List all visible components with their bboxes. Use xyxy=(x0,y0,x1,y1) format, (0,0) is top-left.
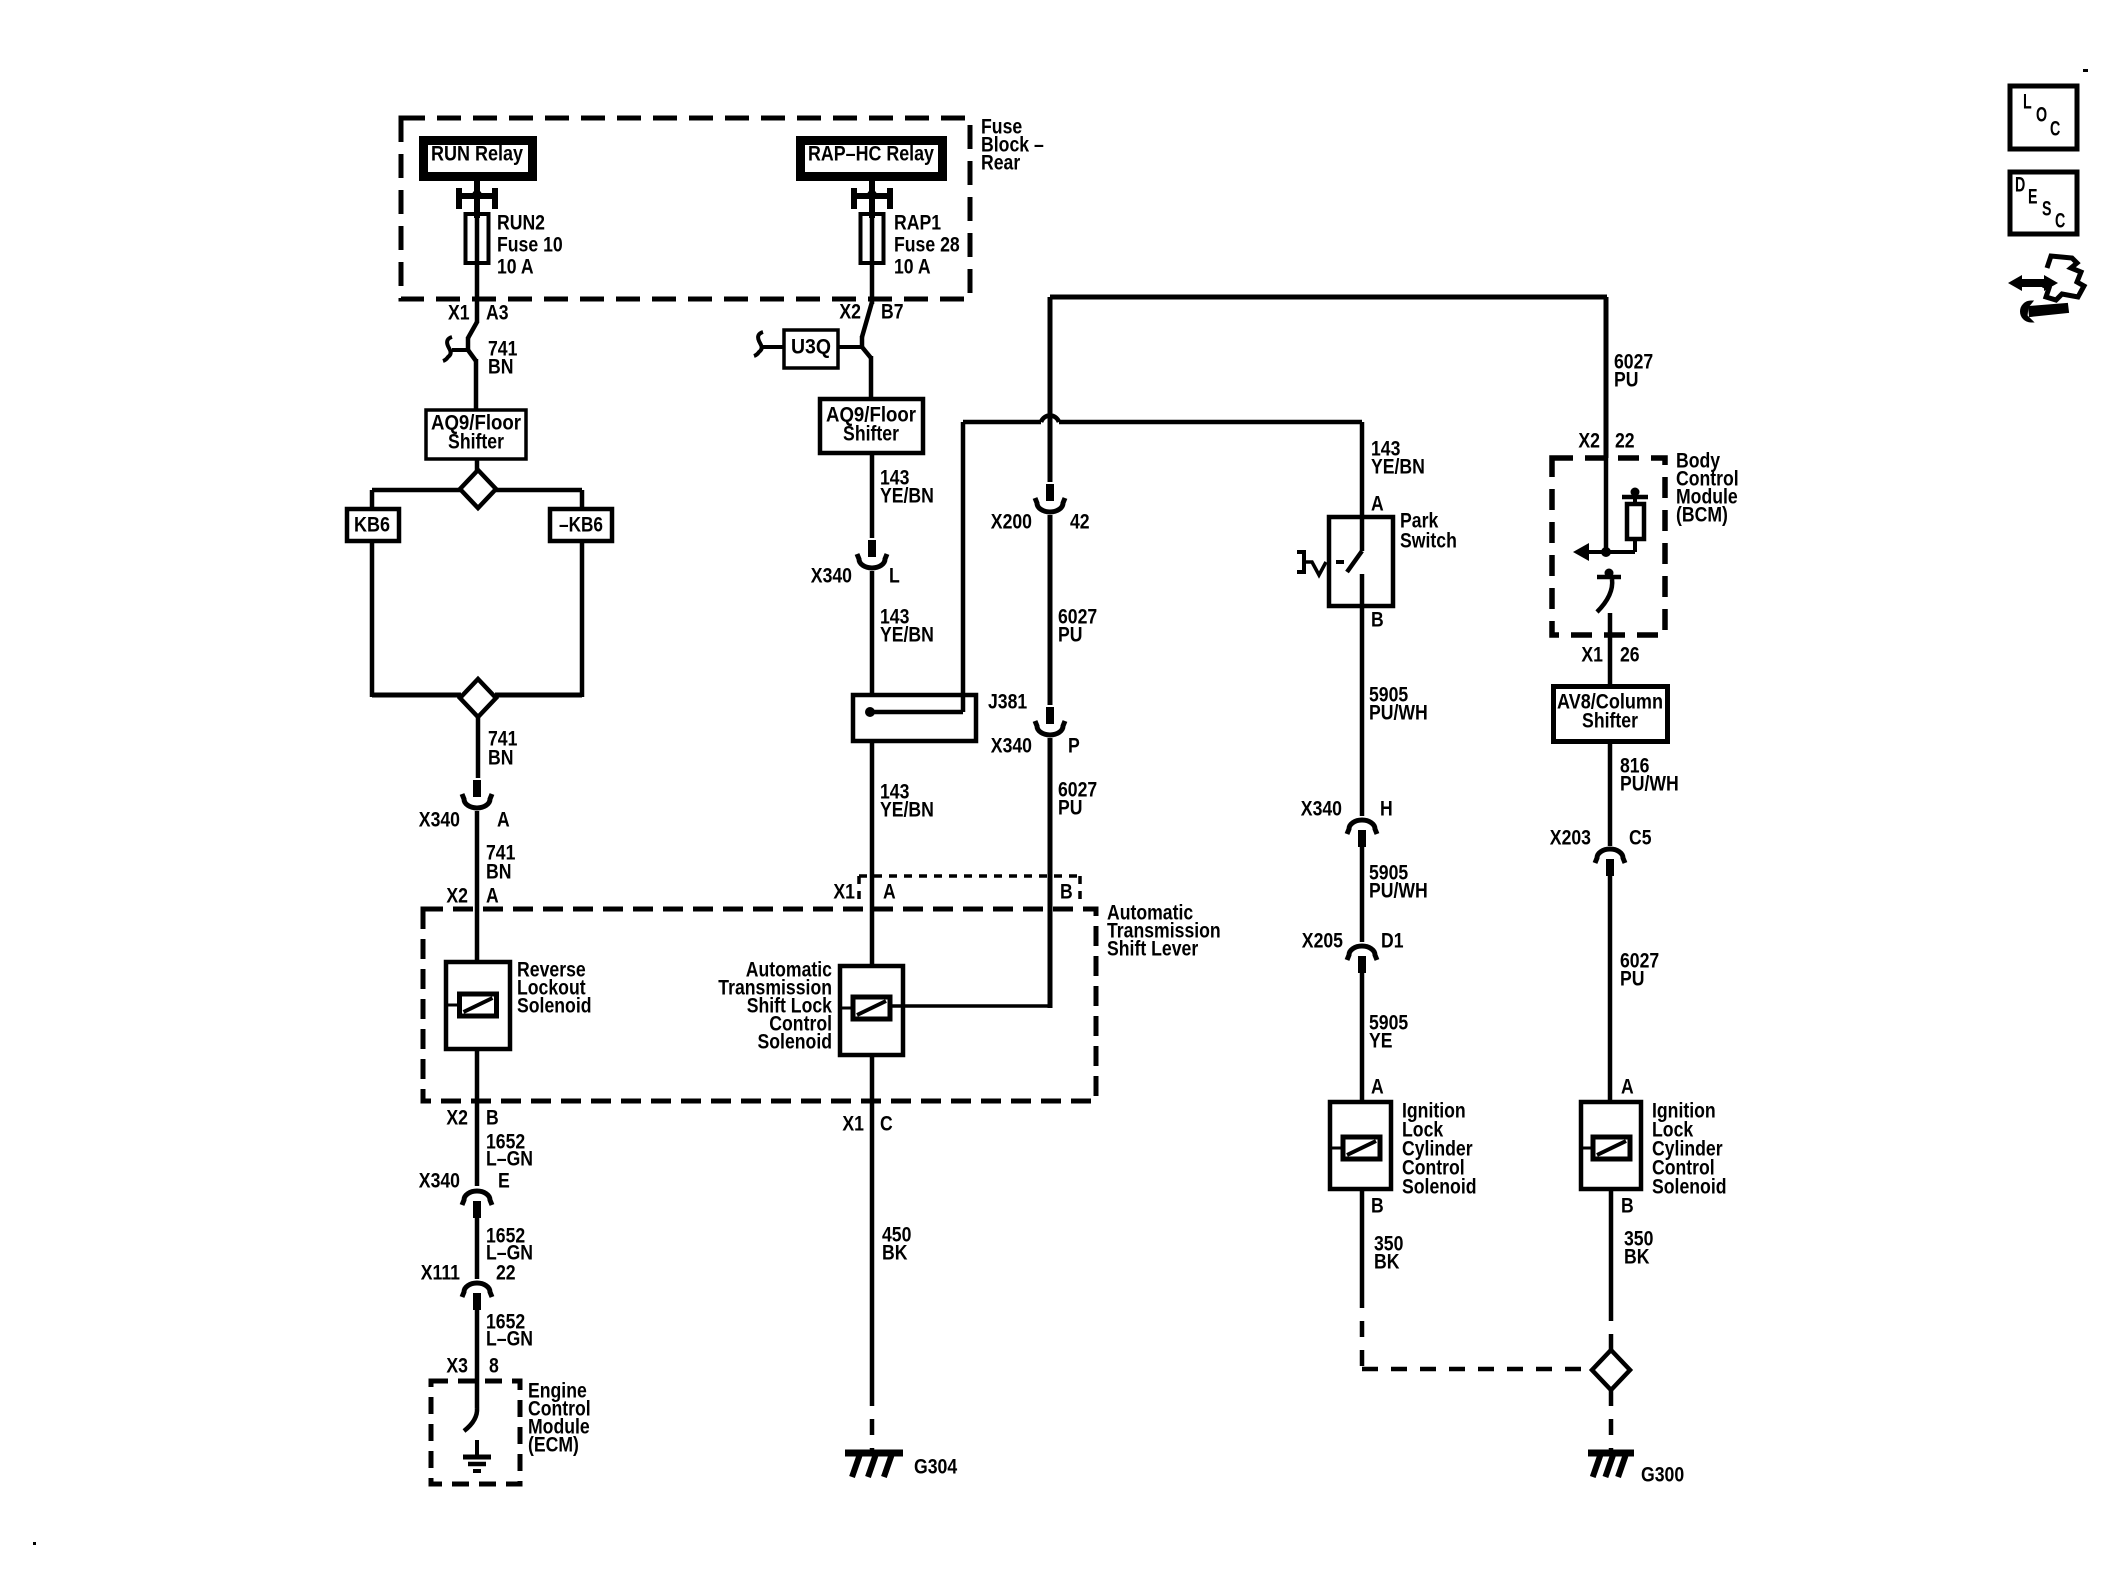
svg-text:B: B xyxy=(1621,1194,1634,1217)
svg-text:Shifter: Shifter xyxy=(448,430,504,453)
svg-text:RAP–HC Relay: RAP–HC Relay xyxy=(808,142,934,165)
svg-text:X200: X200 xyxy=(991,510,1032,533)
svg-text:C: C xyxy=(2050,117,2060,140)
svg-text:Solenoid: Solenoid xyxy=(758,1030,833,1053)
svg-text:A: A xyxy=(486,884,499,907)
svg-text:Shift Lever: Shift Lever xyxy=(1107,937,1198,960)
svg-text:D: D xyxy=(2015,173,2025,196)
svg-text:O: O xyxy=(2036,103,2047,126)
svg-text:BN: BN xyxy=(488,355,514,378)
svg-text:RAP1: RAP1 xyxy=(894,211,941,234)
svg-text:B7: B7 xyxy=(881,300,904,323)
svg-text:BN: BN xyxy=(488,746,514,769)
svg-text:RUN2: RUN2 xyxy=(497,211,545,234)
svg-text:BK: BK xyxy=(882,1241,908,1264)
svg-text:Fuse 10: Fuse 10 xyxy=(497,233,563,256)
svg-text:PU/WH: PU/WH xyxy=(1369,701,1428,724)
svg-text:X340: X340 xyxy=(991,734,1032,757)
svg-text:Rear: Rear xyxy=(981,151,1020,174)
svg-text:X203: X203 xyxy=(1550,826,1591,849)
svg-text:PU: PU xyxy=(1058,796,1083,819)
svg-text:RUN Relay: RUN Relay xyxy=(431,142,523,165)
svg-text:PU: PU xyxy=(1620,967,1645,990)
svg-text:X111: X111 xyxy=(421,1261,461,1284)
svg-text:X3: X3 xyxy=(446,1354,468,1377)
svg-text:L: L xyxy=(2023,90,2032,113)
svg-text:S: S xyxy=(2042,197,2052,220)
svg-text:A: A xyxy=(1621,1075,1634,1098)
svg-text:BN: BN xyxy=(486,860,512,883)
svg-text:X2: X2 xyxy=(446,884,468,907)
svg-text:A: A xyxy=(1371,492,1384,515)
svg-text:B: B xyxy=(1371,608,1384,631)
svg-text:X1: X1 xyxy=(1581,643,1603,666)
svg-text:A3: A3 xyxy=(486,301,509,324)
svg-text:YE/BN: YE/BN xyxy=(1371,455,1425,478)
svg-text:H: H xyxy=(1380,797,1393,820)
svg-text:A: A xyxy=(497,808,510,831)
svg-text:X340: X340 xyxy=(1301,797,1342,820)
svg-text:Shifter: Shifter xyxy=(1582,709,1638,732)
svg-text:A: A xyxy=(883,880,896,903)
svg-text:X340: X340 xyxy=(811,564,852,587)
svg-text:X340: X340 xyxy=(419,1169,460,1192)
svg-text:YE/BN: YE/BN xyxy=(880,798,934,821)
svg-text:L–GN: L–GN xyxy=(486,1327,533,1350)
svg-text:C: C xyxy=(2055,209,2065,232)
svg-text:PU/WH: PU/WH xyxy=(1620,772,1679,795)
svg-text:E: E xyxy=(2028,185,2038,208)
svg-text:8: 8 xyxy=(489,1354,499,1377)
svg-text:L: L xyxy=(889,564,900,587)
svg-text:X2: X2 xyxy=(446,1106,468,1129)
svg-text:B: B xyxy=(1371,1194,1384,1217)
svg-text:PU: PU xyxy=(1614,368,1639,391)
svg-text:Shifter: Shifter xyxy=(843,422,899,445)
svg-text:KB6: KB6 xyxy=(354,513,390,536)
svg-text:–KB6: –KB6 xyxy=(559,513,603,536)
svg-text:BK: BK xyxy=(1624,1245,1650,1268)
svg-text:Solenoid: Solenoid xyxy=(1402,1175,1477,1198)
svg-text:YE/BN: YE/BN xyxy=(880,623,934,646)
svg-text:G304: G304 xyxy=(914,1455,957,1478)
svg-text:26: 26 xyxy=(1620,643,1640,666)
svg-text:22: 22 xyxy=(1615,429,1635,452)
svg-text:D1: D1 xyxy=(1381,929,1404,952)
svg-text:B: B xyxy=(1060,880,1073,903)
svg-text:10 A: 10 A xyxy=(894,255,931,278)
svg-text:42: 42 xyxy=(1070,510,1090,533)
svg-text:22: 22 xyxy=(496,1261,516,1284)
svg-text:X2: X2 xyxy=(1578,429,1600,452)
svg-text:10 A: 10 A xyxy=(497,255,534,278)
svg-text:L–GN: L–GN xyxy=(486,1147,533,1170)
svg-text:YE/BN: YE/BN xyxy=(880,484,934,507)
svg-text:X1: X1 xyxy=(842,1112,864,1135)
svg-text:X205: X205 xyxy=(1302,929,1343,952)
svg-text:J381: J381 xyxy=(988,690,1027,713)
svg-text:Solenoid: Solenoid xyxy=(517,994,592,1017)
svg-text:Switch: Switch xyxy=(1400,529,1457,552)
svg-text:X340: X340 xyxy=(419,808,460,831)
svg-text:C5: C5 xyxy=(1629,826,1652,849)
svg-text:(BCM): (BCM) xyxy=(1676,503,1728,526)
svg-text:U3Q: U3Q xyxy=(791,335,831,358)
svg-text:BK: BK xyxy=(1374,1250,1400,1273)
svg-text:X1: X1 xyxy=(448,301,470,324)
svg-text:YE: YE xyxy=(1369,1029,1393,1052)
svg-text:X2: X2 xyxy=(839,300,861,323)
svg-text:PU: PU xyxy=(1058,623,1083,646)
svg-text:B: B xyxy=(486,1106,499,1129)
svg-text:C: C xyxy=(880,1112,893,1135)
svg-text:Solenoid: Solenoid xyxy=(1652,1175,1727,1198)
svg-text:Fuse 28: Fuse 28 xyxy=(894,233,960,256)
svg-text:G300: G300 xyxy=(1641,1463,1684,1486)
svg-text:PU/WH: PU/WH xyxy=(1369,879,1428,902)
svg-text:A: A xyxy=(1371,1075,1384,1098)
svg-text:(ECM): (ECM) xyxy=(528,1433,579,1456)
svg-text:X1: X1 xyxy=(833,880,855,903)
svg-text:P: P xyxy=(1068,734,1080,757)
svg-text:E: E xyxy=(498,1169,510,1192)
